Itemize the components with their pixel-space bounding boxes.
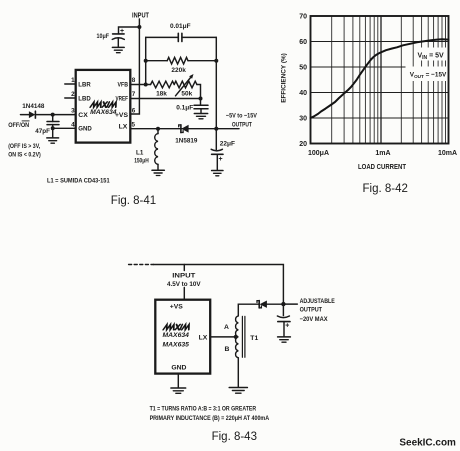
label 1N5819 xyxy=(175,137,198,144)
pin name LX U2 xyxy=(199,334,208,341)
node output Fig843 xyxy=(281,302,285,306)
svg-text:CX: CX xyxy=(78,112,88,119)
label + polarity output cap xyxy=(285,322,289,329)
note OFF IS xyxy=(8,144,41,159)
label OFF/ON xyxy=(8,121,29,129)
y tick 40 xyxy=(299,90,307,97)
label L1 xyxy=(134,149,149,164)
caption Fig 8-42 xyxy=(363,183,408,195)
svg-text:+VS: +VS xyxy=(115,112,129,119)
wire GND pin stem xyxy=(177,374,179,388)
label ADJUSTABLE OUTPUT xyxy=(300,298,335,323)
label INPUT Fig841 xyxy=(132,13,150,20)
svg-text:LBR: LBR xyxy=(78,82,90,89)
wire to capacitor C 10uF xyxy=(119,27,140,34)
diode 1N4148 xyxy=(21,111,76,118)
x tick 100uA xyxy=(308,150,329,157)
resistor 18k xyxy=(151,81,175,88)
caption Fig 8-43 xyxy=(212,431,257,443)
transformer T1 core xyxy=(242,316,245,357)
transformer T1 winding A/B xyxy=(236,316,239,358)
wire INPUT tap to +VS xyxy=(183,265,185,300)
svg-text:10μF: 10μF xyxy=(97,33,110,40)
part MAX634 U1 xyxy=(90,109,117,116)
pin name GND xyxy=(78,126,92,133)
svg-text:100μA: 100μA xyxy=(308,150,329,157)
pin name GND U2 xyxy=(171,365,186,372)
wire GND pin 4 xyxy=(53,127,76,129)
watermark SeekIC.com xyxy=(399,437,456,449)
pin name +VS U2 xyxy=(170,303,184,310)
value 10uF xyxy=(97,33,110,40)
wire 220k row xyxy=(146,60,217,62)
svg-text:MAX634: MAX634 xyxy=(90,109,117,116)
svg-text:18k: 18k xyxy=(156,90,167,97)
wire LX pin 5 run xyxy=(130,128,239,130)
IC U2 MAX634/MAX635 xyxy=(155,300,210,374)
svg-text:VREF: VREF xyxy=(116,96,129,103)
svg-text:LX: LX xyxy=(119,123,128,130)
label box VOUT xyxy=(406,67,451,82)
node input/10uF junction xyxy=(137,25,141,29)
ground for 47pF xyxy=(47,128,59,143)
svg-text:T1: T1 xyxy=(250,335,258,342)
wire 0.01uF loop top xyxy=(146,36,217,38)
node LX/L1 xyxy=(156,127,160,131)
ground for 10uF xyxy=(112,47,124,52)
svg-text:LBD: LBD xyxy=(78,96,90,103)
wire right rail to output xyxy=(215,37,217,128)
ground for output cap xyxy=(278,337,291,342)
label A winding xyxy=(224,324,229,331)
svg-text:5: 5 xyxy=(132,121,136,128)
pin number 2 xyxy=(71,91,75,98)
svg-text:−5V to −15V: −5V to −15V xyxy=(226,113,257,120)
svg-text:T1 = TURNS RATIO A:B = 3:1 OR: T1 = TURNS RATIO A:B = 3:1 OR GREATER xyxy=(150,405,257,412)
graph minor log gridlines decade 1 xyxy=(332,16,378,144)
svg-text:LOAD CURRENT: LOAD CURRENT xyxy=(358,164,407,171)
svg-text:40: 40 xyxy=(299,90,307,97)
svg-text:1: 1 xyxy=(71,77,75,84)
pin number 3 xyxy=(71,108,75,115)
svg-text:0.1μF: 0.1μF xyxy=(176,104,193,111)
svg-text:+: + xyxy=(285,322,289,329)
y tick 60 xyxy=(299,39,307,46)
svg-text:MAX634: MAX634 xyxy=(162,332,189,339)
svg-text:L1: L1 xyxy=(136,149,144,156)
node output Fig841 xyxy=(214,127,218,131)
svg-text:ON IS < 0.2V): ON IS < 0.2V) xyxy=(8,152,41,158)
capacitor 47pF xyxy=(47,115,59,129)
label + polarity 22uF xyxy=(219,156,223,163)
ground for transformer xyxy=(229,388,247,394)
svg-text:2: 2 xyxy=(71,91,75,98)
resistor 220k xyxy=(167,57,188,64)
svg-text:(OFF IS > 3V,: (OFF IS > 3V, xyxy=(8,144,40,150)
capacitor 0.1uF xyxy=(194,99,208,114)
value 220k xyxy=(171,67,186,74)
svg-text:LX: LX xyxy=(199,334,208,341)
wire LX to transformer tap xyxy=(210,336,237,338)
pin name +VS xyxy=(115,112,129,119)
pin name CX xyxy=(78,112,88,119)
pin number 8 xyxy=(132,77,136,84)
svg-text:B: B xyxy=(224,346,229,353)
annotation VIN xyxy=(418,53,445,62)
x tick 10mA xyxy=(438,150,457,157)
svg-text:4: 4 xyxy=(71,121,75,128)
svg-text:+: + xyxy=(219,156,223,163)
svg-text:7: 7 xyxy=(132,91,136,98)
pin name LBD xyxy=(78,96,90,103)
part MAX634 U2 xyxy=(162,332,189,339)
svg-text:10mA: 10mA xyxy=(438,150,457,157)
pin number 5 xyxy=(132,121,136,128)
svg-text:−20V MAX: −20V MAX xyxy=(300,316,329,323)
wire VFB pin 8 xyxy=(130,84,150,86)
label output Fig841 xyxy=(226,113,257,129)
axis label LOAD CURRENT xyxy=(358,164,407,171)
label B winding xyxy=(224,346,229,353)
note T1 turns ratio xyxy=(150,405,270,422)
svg-text:4.5V to 10V: 4.5V to 10V xyxy=(167,281,201,288)
svg-text:GND: GND xyxy=(78,126,92,133)
label box VIN xyxy=(414,48,446,61)
pin name LBR xyxy=(78,82,90,89)
svg-text:Fig. 8-41: Fig. 8-41 xyxy=(111,195,156,207)
value 0.01uF xyxy=(170,23,191,30)
wire top rail Fig843 xyxy=(153,265,283,305)
pin number 7 xyxy=(132,91,136,98)
wire 50k to VREF node xyxy=(197,85,201,99)
svg-text:Fig. 8-43: Fig. 8-43 xyxy=(212,431,257,443)
svg-text:GND: GND xyxy=(171,365,186,372)
efficiency curve xyxy=(311,39,449,118)
ground for 0.1uF xyxy=(194,114,207,119)
label 1N4148 xyxy=(22,103,45,110)
diode 1N5819 xyxy=(179,125,189,133)
axis label EFFICIENCY xyxy=(281,53,288,103)
svg-text:OUTPUT: OUTPUT xyxy=(300,307,323,314)
graph gridline 1mA xyxy=(380,16,382,144)
capacitor 22uF xyxy=(211,129,223,170)
svg-text:INPUT: INPUT xyxy=(172,273,195,280)
label T1 xyxy=(250,335,258,342)
svg-text:Fig. 8-42: Fig. 8-42 xyxy=(363,183,408,195)
value 0.1uF xyxy=(176,104,193,111)
capacitor 10uF xyxy=(112,34,124,47)
wire VREF pin 7 xyxy=(130,98,200,100)
wire transformer bottom stem xyxy=(237,358,239,387)
graph frame xyxy=(311,16,449,144)
pin number 1 xyxy=(71,77,75,84)
capacitor 0.01uF xyxy=(178,33,182,41)
svg-text:1N4148: 1N4148 xyxy=(22,103,45,110)
y tick 20 xyxy=(299,141,307,148)
svg-text:22μF: 22μF xyxy=(220,141,235,148)
wire INPUT rail to +VS pin 6 xyxy=(130,19,139,114)
label INPUT Fig843 xyxy=(167,273,201,288)
graph minor log gridlines decade 2 xyxy=(401,16,445,144)
annotation VOUT xyxy=(410,72,447,81)
svg-text:150μH: 150μH xyxy=(134,157,149,164)
value 18k xyxy=(156,90,167,97)
svg-text:47pF: 47pF xyxy=(35,128,50,135)
node VREF/0.1uF xyxy=(199,97,203,101)
diode D1 Fig843 xyxy=(257,301,283,308)
pin name VFB xyxy=(118,82,129,89)
node VFB xyxy=(144,83,148,87)
logo MAXIM U2 xyxy=(163,325,190,330)
wire dashed input rail xyxy=(129,264,154,266)
x tick 1mA xyxy=(375,150,390,157)
node 220k left xyxy=(144,59,148,63)
svg-text:SeekIC.com: SeekIC.com xyxy=(399,437,456,449)
svg-text:1mA: 1mA xyxy=(375,150,390,157)
y tick 70 xyxy=(299,14,307,21)
wire feedback left rail xyxy=(145,37,147,84)
svg-text:VFB: VFB xyxy=(118,82,129,89)
svg-text:A: A xyxy=(224,324,229,331)
value 50k xyxy=(181,91,192,98)
part MAX635 U2 xyxy=(162,341,189,348)
svg-text:50: 50 xyxy=(299,65,307,72)
svg-text:MAX635: MAX635 xyxy=(162,341,189,348)
node LX tap xyxy=(234,335,238,339)
potentiometer 50k xyxy=(174,74,197,96)
label + polarity 10uF xyxy=(120,28,124,35)
note L1 SUMIDA xyxy=(47,178,110,185)
y tick 30 xyxy=(299,116,307,123)
wire transformer top to diode xyxy=(238,304,259,316)
svg-text:ADJUSTABLE: ADJUSTABLE xyxy=(300,298,335,305)
IC U1 MAX634 xyxy=(76,70,131,143)
svg-text:L1 = SUMIDA CD43-151: L1 = SUMIDA CD43-151 xyxy=(47,178,110,185)
svg-text:OFF/ON: OFF/ON xyxy=(8,122,29,129)
pin 2 stub LBD xyxy=(65,97,76,99)
ground for 22uF xyxy=(212,171,223,176)
pin name LX xyxy=(119,123,128,130)
pin name VREF xyxy=(116,96,129,103)
svg-text:220k: 220k xyxy=(171,67,186,74)
svg-text:60: 60 xyxy=(299,39,307,46)
svg-text:20: 20 xyxy=(299,141,307,148)
svg-text:30: 30 xyxy=(299,116,307,123)
value 47pF xyxy=(35,128,50,135)
node 220k right xyxy=(214,59,218,63)
svg-text:INPUT: INPUT xyxy=(132,13,150,20)
svg-text:1N5819: 1N5819 xyxy=(175,137,198,144)
pin number 6 xyxy=(132,108,136,115)
svg-text:3: 3 xyxy=(71,108,75,115)
graph horizontal gridlines xyxy=(311,42,449,119)
svg-text:70: 70 xyxy=(299,14,307,21)
svg-text:6: 6 xyxy=(132,108,136,115)
svg-text:0.01μF: 0.01μF xyxy=(170,23,191,30)
node 47pF bottom xyxy=(51,126,55,130)
svg-text:8: 8 xyxy=(132,77,136,84)
pin number 4 xyxy=(71,121,75,128)
wire output stub xyxy=(283,303,297,305)
svg-text:OUTPUT: OUTPUT xyxy=(232,122,252,129)
svg-text:+: + xyxy=(120,28,124,35)
value 22uF xyxy=(220,141,235,148)
pin 1 stub LBR xyxy=(65,83,76,85)
ground for IC U2 xyxy=(171,388,186,393)
svg-text:50k: 50k xyxy=(181,91,192,98)
inductor L1 150uH xyxy=(155,129,158,170)
svg-text:+VS: +VS xyxy=(170,303,184,310)
ground for L1 xyxy=(152,170,164,175)
y tick 50 xyxy=(299,65,307,72)
capacitor output Fig843 xyxy=(277,304,290,337)
svg-text:EFFICIENCY (%): EFFICIENCY (%) xyxy=(281,53,288,103)
caption Fig 8-41 xyxy=(111,195,156,207)
svg-text:PRIMARY INDUCTANCE (B) = 220μH: PRIMARY INDUCTANCE (B) = 220μH AT 400mA xyxy=(150,415,270,422)
node CX/47pF xyxy=(51,113,55,117)
logo MAXIM U1 xyxy=(90,102,117,107)
